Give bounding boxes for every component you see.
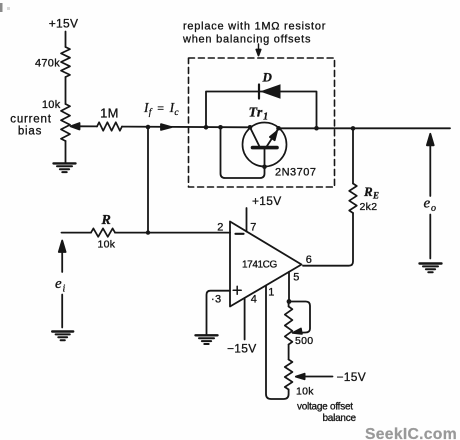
wiper arrow of current-bias pot <box>71 123 98 129</box>
resistor R 10k (input) <box>91 228 115 236</box>
wire: 500 to 10k pot <box>288 345 290 360</box>
wire: main summing rail, 1M to transistor collector <box>122 126 250 129</box>
output arrow eo <box>427 134 434 259</box>
junction: diode branch left <box>204 125 209 130</box>
svg-text:·3: ·3 <box>211 294 221 306</box>
svg-text:2k2: 2k2 <box>360 201 378 213</box>
junction: pin 5 node <box>287 299 292 304</box>
junction: emitter to main rail <box>276 126 281 131</box>
ground (pin 3) <box>196 335 218 344</box>
wire: diode branch (parallel loop) <box>206 92 317 129</box>
svg-text:10k: 10k <box>296 386 314 398</box>
svg-text:5: 5 <box>293 272 299 284</box>
svg-text:SeekIC.com: SeekIC.com <box>365 426 457 440</box>
svg-text:−15V: −15V <box>337 370 367 384</box>
svg-text:current: current <box>10 114 51 126</box>
svg-text:+15V: +15V <box>252 194 282 208</box>
svg-text:470k: 470k <box>35 58 60 70</box>
svg-text:1741CG: 1741CG <box>242 260 277 271</box>
resistor 1M <box>97 122 122 130</box>
svg-text:7: 7 <box>250 222 256 234</box>
svg-text:10k: 10k <box>42 99 61 111</box>
svg-text:4: 4 <box>251 294 257 306</box>
junction node: feedback tap <box>146 125 151 130</box>
wiper arrow of offset pot, from -15V <box>296 374 333 380</box>
svg-text:+15V: +15V <box>49 17 79 31</box>
dashed box: replaceable feedback element <box>189 58 335 187</box>
transistor Tr1 2N3707 (diode-connected) <box>243 123 287 167</box>
svg-text:10k: 10k <box>98 239 116 251</box>
pin 2 wire (inverting input) <box>148 232 230 234</box>
junction: transistor base node <box>262 165 267 170</box>
resistor 470k <box>61 47 70 77</box>
junction: feedback to pin2 rail <box>146 230 150 234</box>
wire: RE upper lead <box>352 128 354 183</box>
junction: collector to main rail <box>248 125 253 130</box>
wire: 470k to pot <box>65 77 67 104</box>
svg-text:when balancing offsets: when balancing offsets <box>182 34 311 46</box>
pin 4 wire (V-) <box>244 298 246 340</box>
junction: base loop on main rail <box>218 125 223 130</box>
wire: pot to ground <box>65 141 67 163</box>
svg-text:R: R <box>101 213 112 228</box>
svg-text:6: 6 <box>306 254 312 266</box>
wire: feedback vertical (node to pin 2 rail) <box>147 127 149 233</box>
diode D (cathode bar left, pointing left) <box>259 84 281 98</box>
current direction arrow If <box>161 124 172 130</box>
pin 5 wire (offset null) <box>288 272 290 302</box>
wire: 500 pot wiper loop <box>289 302 310 334</box>
wire: input lead <box>62 232 92 234</box>
svg-text:2: 2 <box>217 222 223 234</box>
ground (output reference) <box>420 264 442 273</box>
svg-text:bias: bias <box>18 126 42 138</box>
svg-text:balance: balance <box>323 413 357 424</box>
potentiometer 500 <box>285 307 293 345</box>
op-amp inverting input symbol <box>236 233 244 235</box>
ground (current bias) <box>54 163 76 172</box>
svg-text:−15V: −15V <box>227 342 257 356</box>
op-amp U1 1741CG <box>230 222 302 307</box>
junction: diode branch right <box>314 126 319 131</box>
resistor RE 2k2 <box>349 184 357 214</box>
wire: R to summing node <box>115 232 148 234</box>
wire: offset pot bottom U-loop to pin 1 <box>266 286 289 399</box>
svg-text:500: 500 <box>295 335 313 347</box>
wire: main rail, emitter to output end <box>279 127 451 129</box>
svg-text:D: D <box>262 70 273 85</box>
potentiometer 10k (voltage offset balance) <box>285 360 293 390</box>
svg-text:2N3707: 2N3707 <box>275 167 317 179</box>
junction: RE top <box>351 126 356 131</box>
pin 7 wire (V+) <box>246 208 248 232</box>
annotation arrow into dashed box <box>256 44 260 56</box>
ground (ei source) <box>52 332 73 341</box>
wire: RE bottom to op-amp output <box>303 213 353 266</box>
pin 3 wire (non-inverting input to ground) <box>207 291 231 335</box>
svg-text:replace with 1MΩ resistor: replace with 1MΩ resistor <box>183 21 326 33</box>
wire: 500 top lead <box>288 302 290 307</box>
op-amp non-inverting input symbol <box>233 286 241 294</box>
svg-text:1: 1 <box>268 287 274 299</box>
potentiometer 10k (current bias) <box>61 104 70 141</box>
wire: +15V to 470k <box>65 32 67 48</box>
svg-text:1M: 1M <box>100 106 119 121</box>
source arrow ei <box>59 241 66 328</box>
wire: base loop to summing rail <box>221 127 265 178</box>
svg-text:voltage offset: voltage offset <box>297 402 353 413</box>
